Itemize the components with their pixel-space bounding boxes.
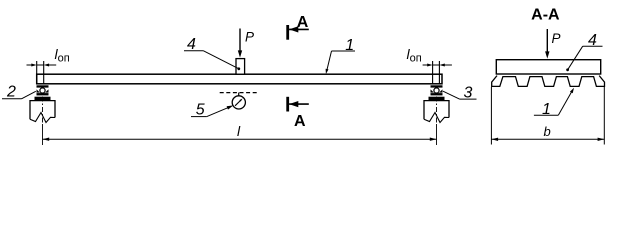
- svg-text:b: b: [544, 124, 551, 139]
- svg-text:P: P: [245, 30, 254, 45]
- svg-text:2: 2: [6, 84, 16, 101]
- svg-text:А: А: [294, 113, 306, 130]
- svg-text:А: А: [297, 14, 309, 31]
- svg-text:P: P: [552, 31, 561, 46]
- svg-text:А-А: А-А: [531, 7, 560, 24]
